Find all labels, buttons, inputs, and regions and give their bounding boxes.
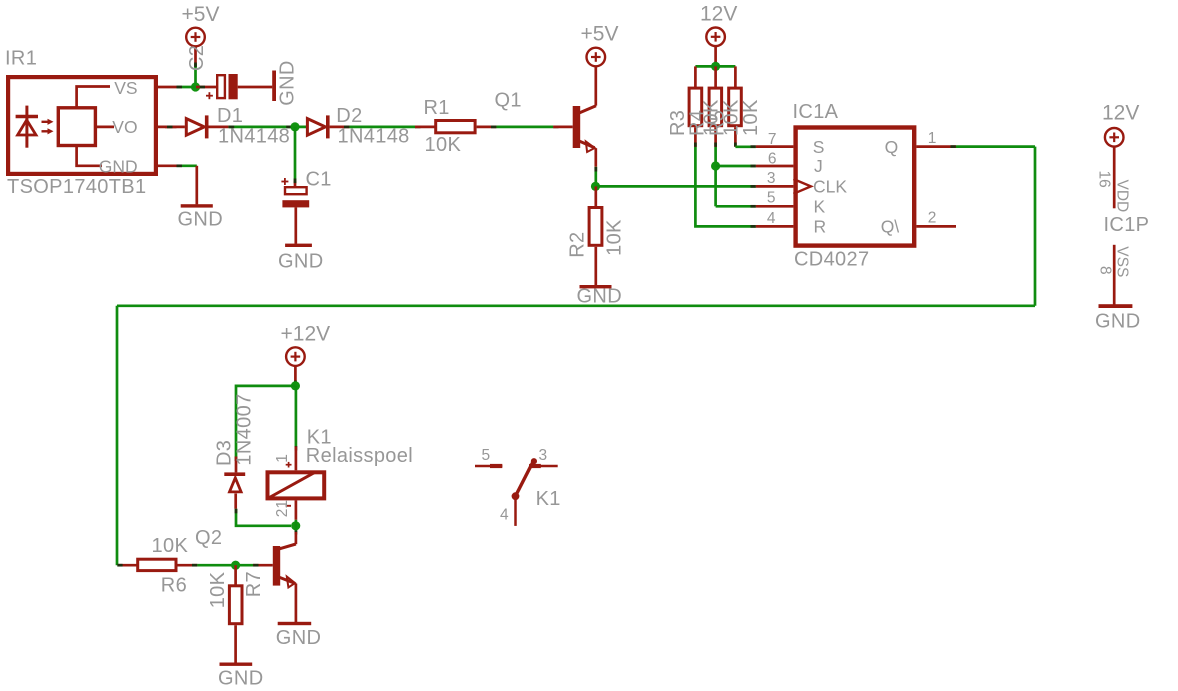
diode D3 — [224, 457, 245, 509]
svg-text:GND: GND — [278, 250, 324, 272]
relay polarity minus — [286, 505, 291, 507]
svg-text:Relaisspoel: Relaisspoel — [306, 445, 413, 467]
mark — [491, 126, 496, 129]
wire node J to pin J — [716, 165, 756, 168]
wire +5V to node VS — [194, 64, 197, 87]
diode D2 — [307, 115, 349, 138]
svg-text:10K: 10K — [740, 99, 762, 136]
svg-text:VO: VO — [112, 117, 137, 137]
svg-text:CD4027: CD4027 — [794, 248, 869, 270]
resistor R4 — [709, 66, 722, 147]
svg-text:D1: D1 — [217, 105, 243, 127]
mark — [694, 143, 697, 147]
mark — [553, 126, 558, 129]
mark — [235, 457, 238, 462]
switch contact K1 pin 3 — [529, 465, 558, 468]
svg-text:21: 21 — [274, 500, 291, 517]
IR1 pin VO — [156, 126, 177, 129]
svg-text:J: J — [814, 156, 823, 176]
svg-text:C2: C2 — [186, 45, 208, 71]
IR1 pin VS — [156, 86, 177, 89]
svg-text:GND: GND — [1095, 310, 1141, 332]
supply 12V P3 — [700, 2, 737, 66]
svg-text:10K: 10K — [701, 99, 723, 136]
R3 R4 R5 value labels 10K — [701, 99, 762, 136]
svg-text:7: 7 — [768, 131, 777, 148]
svg-text:1N4148: 1N4148 — [338, 126, 410, 148]
mark — [295, 531, 298, 535]
mark — [192, 564, 197, 567]
svg-text:Q1: Q1 — [495, 90, 522, 112]
resistor R6 — [118, 559, 197, 570]
capacitor C1 — [281, 127, 309, 244]
IC1A clock triangle — [793, 179, 811, 194]
junction node coil bottom — [291, 521, 300, 530]
R3 R4 R5 name labels — [667, 110, 728, 136]
mark — [177, 86, 183, 89]
IR1 internal connections — [77, 87, 114, 166]
IC1A pin CLK stub — [756, 185, 794, 188]
svg-text:D2: D2 — [336, 105, 362, 127]
IC1A pin Q stub — [916, 145, 956, 148]
wire loop bottom horizontal — [117, 304, 1035, 307]
IC1A pin J stub — [756, 165, 794, 168]
mark — [167, 126, 173, 129]
mark — [286, 126, 291, 129]
svg-text:+5V: +5V — [581, 22, 619, 45]
svg-text:GND: GND — [178, 209, 224, 231]
svg-text:R3: R3 — [667, 110, 689, 136]
mark — [253, 564, 258, 567]
svg-text:IC1A: IC1A — [793, 101, 839, 123]
svg-text:IC1P: IC1P — [1104, 214, 1150, 236]
svg-text:Q\: Q\ — [881, 217, 900, 237]
mark — [194, 63, 197, 68]
junction node J — [711, 161, 720, 170]
IR1 pin labels — [99, 78, 138, 176]
wire loop left vertical — [116, 306, 119, 565]
junction node VS/C2 — [191, 82, 200, 91]
IR1 photodiode — [16, 106, 38, 148]
svg-text:R6: R6 — [161, 575, 187, 597]
marks on IC pins — [751, 147, 956, 227]
svg-text:K1: K1 — [536, 488, 561, 510]
mark — [200, 86, 205, 89]
ground GND at IR1 — [178, 166, 224, 231]
svg-text:5: 5 — [482, 447, 491, 464]
svg-text:GND: GND — [276, 627, 322, 649]
svg-text:5: 5 — [767, 190, 776, 207]
mark — [294, 381, 297, 385]
IC1A pin names — [813, 137, 900, 237]
wire R6 to base node — [197, 564, 253, 567]
svg-text:R2: R2 — [566, 232, 588, 258]
svg-text:12V: 12V — [700, 2, 737, 25]
svg-text:R7: R7 — [243, 571, 265, 597]
IC1A pin numbers — [767, 130, 937, 227]
svg-text:GND: GND — [218, 667, 264, 689]
wire R4 down to J and K — [714, 147, 717, 206]
IR1 detector block — [58, 108, 95, 146]
ground GND at R2 — [577, 267, 623, 308]
svg-text:1: 1 — [928, 130, 937, 147]
mark — [117, 564, 122, 567]
svg-text:3: 3 — [767, 170, 776, 187]
svg-text:R: R — [814, 217, 827, 237]
IC1P pin VDD — [1113, 147, 1116, 209]
svg-text:1N4148: 1N4148 — [218, 126, 290, 148]
IR1 infrared arrows — [42, 119, 54, 135]
wire loop right vertical — [1034, 147, 1037, 306]
wire Q1 emitter to node — [594, 167, 597, 187]
svg-text:10K: 10K — [425, 134, 462, 156]
IC1A pin S stub — [756, 145, 794, 148]
wire to pin K — [716, 205, 756, 208]
mark — [415, 126, 420, 129]
svg-text:4: 4 — [767, 210, 776, 227]
svg-text:VS: VS — [114, 78, 137, 98]
junction node C1 — [290, 122, 299, 131]
IC1A pin Qbar stub — [916, 225, 956, 228]
transistor Q2 — [273, 532, 296, 622]
mark — [294, 179, 297, 184]
switch contact K1 pin 5 — [475, 465, 502, 468]
mark — [734, 143, 737, 147]
wire D1 to D2 — [229, 126, 307, 129]
mark — [229, 126, 234, 129]
svg-text:+5V: +5V — [182, 3, 220, 26]
relay coil K1 — [268, 447, 325, 520]
switch K1 lever — [512, 458, 537, 500]
svg-text:R1: R1 — [424, 97, 450, 119]
supply 12V P4 — [1102, 101, 1139, 146]
svg-text:+12V: +12V — [281, 322, 331, 345]
ground GND at Q2 — [276, 622, 322, 649]
svg-text:8: 8 — [1097, 266, 1114, 275]
junction node Q2 base — [231, 561, 240, 570]
wire Q to loop — [956, 145, 1035, 148]
IR receiver IR1 box — [8, 77, 156, 174]
svg-text:K: K — [814, 196, 826, 216]
resistor R5 — [729, 66, 742, 146]
svg-text:4: 4 — [500, 506, 509, 523]
svg-text:3: 3 — [539, 447, 548, 464]
svg-text:TSOP1740TB1: TSOP1740TB1 — [7, 176, 146, 198]
svg-text:GND: GND — [99, 156, 138, 176]
svg-text:IR1: IR1 — [5, 47, 37, 69]
svg-text:S: S — [813, 137, 825, 157]
svg-text:2: 2 — [928, 209, 937, 226]
svg-text:Q: Q — [885, 137, 899, 157]
supply +12V P5 — [281, 322, 331, 386]
diode D1 — [165, 115, 229, 138]
mark — [714, 62, 717, 66]
relay polarity plus — [286, 462, 292, 468]
wire node to CLK pin — [596, 185, 756, 188]
svg-text:Q2: Q2 — [195, 527, 222, 549]
mark — [235, 509, 238, 514]
svg-text:VDD: VDD — [1113, 180, 1130, 213]
svg-text:16: 16 — [1096, 171, 1113, 188]
svg-text:1: 1 — [274, 454, 291, 463]
wire R3 down to R — [695, 147, 755, 226]
mark — [344, 126, 349, 129]
svg-text:GND: GND — [277, 60, 299, 106]
svg-text:10K: 10K — [152, 535, 189, 557]
mark — [295, 446, 298, 451]
IR1 pin GND — [156, 164, 177, 167]
svg-text:12V: 12V — [1102, 101, 1139, 124]
wire +12V to D3 — [236, 386, 295, 457]
Q2 base pin — [253, 564, 273, 567]
svg-text:6: 6 — [768, 150, 777, 167]
transistor Q1 — [553, 67, 596, 167]
mark — [177, 164, 183, 167]
resistor R2 — [589, 186, 602, 266]
svg-text:C1: C1 — [306, 169, 332, 191]
switch contact K1 pin 4 — [514, 496, 517, 526]
wire D3 to coil node — [236, 509, 291, 526]
svg-text:10K: 10K — [720, 99, 742, 136]
IC1A CD4027 box — [796, 128, 915, 246]
ground GND at C2 — [272, 60, 298, 106]
junction node CLK — [591, 182, 600, 191]
wire +12V to relay — [295, 386, 298, 447]
ground GND at C1 — [278, 244, 324, 273]
wire IR1 GND pin to ground — [177, 164, 197, 167]
ground GND at R7 — [218, 663, 264, 690]
IC1P pin VSS — [1113, 245, 1116, 306]
supply +5V P1 — [182, 3, 220, 67]
wire 12V bus — [695, 65, 735, 68]
resistor R3 — [689, 66, 702, 147]
svg-text:D3: D3 — [213, 440, 235, 466]
svg-text:VSS: VSS — [1113, 246, 1130, 277]
junction node +12V — [291, 381, 300, 390]
ground GND at IC1P — [1095, 304, 1141, 332]
wire D2 to R1 — [349, 126, 415, 129]
svg-text:10K: 10K — [604, 219, 626, 256]
wire coil to Q2 collector — [295, 520, 298, 532]
svg-text:GND: GND — [577, 286, 623, 308]
resistor R1 — [415, 121, 496, 133]
mark — [594, 167, 597, 172]
wire R5 to pin S — [735, 145, 755, 148]
wire VS to node — [177, 86, 196, 89]
resistor R7 — [229, 565, 242, 663]
svg-text:CLK: CLK — [813, 177, 847, 197]
svg-text:10K: 10K — [207, 571, 229, 608]
IC1A pin K stub — [756, 205, 794, 208]
supply +5V P2 — [581, 22, 619, 66]
switch K1 pin numbers — [482, 447, 548, 524]
svg-text:1N4007: 1N4007 — [234, 393, 256, 465]
mark — [714, 143, 717, 147]
junction node 12V bus — [711, 62, 720, 71]
capacitor C2 — [196, 74, 272, 99]
wire R1 to Q1 base — [496, 126, 553, 129]
IC1A pin R stub — [756, 225, 794, 228]
